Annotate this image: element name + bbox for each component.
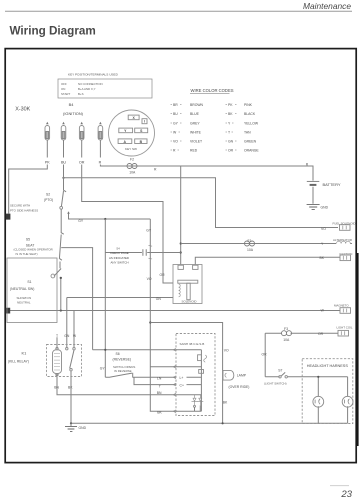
svg-text:BATTERY: BATTERY (323, 182, 341, 187)
label X-30K (15, 106, 30, 112)
svg-text:VO: VO (224, 348, 229, 352)
svg-text:BU: BU (61, 160, 66, 164)
battery (307, 181, 341, 203)
svg-text:VO: VO (147, 277, 152, 281)
wire label BN (row) (157, 391, 162, 395)
svg-text:LIGHT COIL: LIGHT COIL (337, 325, 353, 329)
wire alternator row (181, 243, 336, 245)
wire label BK (ignition) (320, 256, 325, 260)
node VO branch (149, 321, 151, 323)
svg-text:(IGNITION): (IGNITION) (63, 111, 84, 116)
svg-text:BK: BK (68, 386, 73, 390)
svg-text:23: 23 (340, 489, 352, 500)
svg-text:(PTO): (PTO) (44, 198, 53, 202)
svg-text:ANY SWITCH: ANY SWITCH (111, 260, 129, 264)
switch S5 seat (14, 209, 64, 268)
svg-text:T: T (56, 334, 58, 338)
svg-text:BR: BR (173, 103, 178, 107)
svg-text:RED: RED (190, 149, 198, 153)
svg-text:BU: BU (173, 112, 178, 116)
wire label Y (alternator) (321, 242, 324, 246)
wire LN row (133, 376, 176, 378)
svg-text:BN: BN (54, 386, 59, 390)
engine plug ignition (340, 252, 353, 261)
wire GY row (69, 213, 151, 220)
fuse F2 (127, 158, 137, 175)
label B4 (IGNITION) (63, 102, 84, 116)
wire label LN (157, 376, 162, 380)
svg-text:IS IN THE SEAT): IS IN THE SEAT) (16, 252, 38, 256)
svg-text:PK: PK (228, 103, 233, 107)
wire BK kill vertical (70, 371, 72, 423)
svg-text:GND: GND (321, 205, 329, 209)
wire label R (99, 160, 102, 164)
switch S6 reverse (105, 352, 135, 378)
fuse F3 (282, 327, 292, 342)
wire label OR (solenoid feed) (160, 273, 166, 277)
box S1 neutral (7, 258, 57, 323)
connector inline pair (143, 249, 146, 256)
svg-text:KEY POSITION/TERMINALS USED: KEY POSITION/TERMINALS USED (68, 73, 119, 77)
svg-text:BLACK: BLACK (244, 112, 256, 116)
svg-text:LAMP: LAMP (237, 374, 247, 378)
svg-text:TAN: TAN (244, 131, 251, 135)
connector arrow PK at border (6, 214, 11, 220)
svg-text:GY: GY (78, 219, 84, 223)
wire label GY (vertical) (146, 229, 152, 233)
connector J1 (PK bullet) (45, 122, 50, 158)
svg-text:L+: L+ (180, 376, 184, 380)
wire label BU (61, 160, 66, 164)
svg-text:10A: 10A (129, 170, 136, 174)
svg-text:CHECK PAGE: CHECK PAGE (110, 251, 129, 255)
wire GY S6 row (93, 349, 176, 351)
svg-text:OR: OR (228, 149, 234, 153)
svg-text:T: T (228, 131, 230, 135)
engine plug fuel solenoid (333, 222, 356, 231)
wire label OR (79, 160, 85, 164)
wire BN row (57, 374, 176, 395)
svg-text:BK: BK (320, 256, 325, 260)
svg-text:PK: PK (45, 160, 50, 164)
svg-text:SHOWN IN: SHOWN IN (17, 296, 32, 300)
wire label GY (S6) (100, 366, 106, 370)
svg-text:OR: OR (262, 353, 268, 357)
connector J2 (BU bullet) (61, 122, 66, 158)
svg-text:VO: VO (321, 227, 326, 231)
svg-text:Wiring Diagram: Wiring Diagram (10, 24, 96, 37)
switch S1 neutral (10, 269, 62, 311)
svg-text:GN: GN (156, 297, 162, 301)
svg-text:NO CONNECTION: NO CONNECTION (78, 82, 103, 86)
wire S5 aux to GY-S6 row (61, 248, 92, 350)
svg-text:(KILL RELAY): (KILL RELAY) (8, 359, 29, 363)
wire ignition row (195, 257, 340, 264)
svg-text:BN: BN (157, 391, 162, 395)
svg-text:(OVER RIDE): (OVER RIDE) (229, 385, 250, 389)
svg-text:VO: VO (173, 140, 178, 144)
svg-text:GREEN: GREEN (244, 140, 257, 144)
svg-text:OFF: OFF (61, 82, 67, 86)
wire label BK (kill) (68, 386, 73, 390)
svg-text:GND: GND (79, 426, 87, 430)
svg-text:BLUE: BLUE (190, 112, 200, 116)
node GY S6 (104, 349, 106, 351)
wire W magneto row (7, 311, 340, 348)
alternator coil (333, 238, 352, 244)
svg-text:VIOLET: VIOLET (190, 140, 202, 144)
svg-text:PINK: PINK (244, 103, 253, 107)
svg-text:MAGNETO: MAGNETO (334, 304, 349, 308)
svg-text:START: START (61, 92, 70, 96)
lamp right (342, 396, 353, 407)
svg-text:10A: 10A (247, 248, 254, 252)
svg-text:BK: BK (223, 400, 228, 404)
svg-text:OR: OR (79, 160, 85, 164)
svg-text:(CLOSED WHEN OPERATOR: (CLOSED WHEN OPERATOR (14, 248, 53, 252)
lamp left (313, 396, 324, 407)
connector arrow W at border (6, 308, 10, 314)
wire vertical to S6 (104, 219, 106, 377)
wire label R (battery) (306, 162, 309, 166)
wire seat interlock row with connector (105, 252, 180, 254)
svg-text:(REVERSE): (REVERSE) (113, 358, 131, 362)
svg-text:S7: S7 (278, 369, 282, 373)
wire label OR (light switch) (262, 353, 268, 357)
connector J4 (R bullet) (98, 122, 103, 158)
svg-text:BK: BK (228, 112, 233, 116)
svg-text:SANH 38 C.E.S.B: SANH 38 C.E.S.B (180, 342, 205, 346)
wire label VO (override) (224, 348, 229, 352)
svg-text:X-30K: X-30K (15, 106, 30, 112)
node solenoid feed / seat line tap (180, 251, 182, 253)
wire GY/VO vertical long (150, 219, 176, 411)
connector J3 (OR bullet) (79, 122, 84, 158)
svg-text:GN: GN (228, 140, 234, 144)
fuse F1 (245, 239, 255, 252)
wire VO pin stub (150, 366, 176, 368)
node BU junction (62, 177, 64, 179)
wire solenoid feed vertical (180, 166, 182, 265)
svg-text:S6: S6 (116, 352, 120, 356)
svg-text:YELLOW: YELLOW (244, 122, 259, 126)
key position table (58, 73, 152, 98)
svg-text:GY: GY (100, 366, 106, 370)
wire label VO (vertical) (147, 277, 152, 281)
harness headlight (302, 359, 353, 424)
wire VO branch to override (150, 323, 222, 424)
wire label PK (45, 160, 50, 164)
switch S2 PTO (44, 165, 66, 210)
override button (223, 370, 249, 388)
svg-text:AS INDICATED: AS INDICATED (109, 256, 129, 260)
svg-text:IN REVERSE: IN REVERSE (114, 369, 132, 373)
svg-text:SOLENOID: SOLENOID (182, 300, 197, 304)
node solenoid feed / alternator tap (180, 242, 182, 244)
svg-text:KEY SW: KEY SW (125, 147, 137, 151)
svg-text:B+A AND X,Y: B+A AND X,Y (78, 87, 96, 91)
wire label GY (row) (78, 219, 84, 223)
svg-text:NEUTRAL: NEUTRAL (17, 300, 31, 304)
svg-text:ON: ON (61, 87, 65, 91)
svg-text:I: I (144, 120, 145, 124)
wire label R (mid) (154, 168, 157, 172)
crossover ticks (149, 245, 153, 259)
node S1 to W row (60, 309, 62, 311)
wire label BK (module row) (157, 410, 162, 414)
svg-text:OR: OR (160, 273, 166, 277)
svg-text:10A: 10A (283, 338, 290, 342)
svg-text:SECURE WITH: SECURE WITH (10, 203, 30, 207)
svg-text:GY: GY (146, 229, 152, 233)
wire R main to battery (100, 165, 313, 181)
svg-text:(NEUTRAL SW): (NEUTRAL SW) (10, 287, 34, 291)
svg-text:OR: OR (318, 332, 324, 336)
wire GN row (67, 298, 173, 348)
switch S7 light (264, 369, 302, 386)
svg-text:WIRE COLOR CODES: WIRE COLOR CODES (191, 88, 234, 93)
module CESB (173, 334, 215, 416)
wire label GN (row) (156, 297, 162, 301)
connector arrow GY stub (67, 211, 70, 214)
wire light coil row (265, 333, 338, 377)
svg-text:LN: LN (157, 376, 162, 380)
wire label OR (light coil) (318, 332, 324, 336)
svg-text:C+: C+ (180, 383, 184, 387)
svg-text:S1: S1 (27, 280, 31, 284)
svg-text:S2: S2 (46, 193, 50, 197)
svg-text:B4: B4 (69, 102, 75, 107)
svg-text:GN: GN (64, 334, 70, 338)
svg-text:T: T (159, 384, 161, 388)
wire color codes legend (171, 88, 260, 153)
wire label T (159, 384, 161, 388)
svg-text:ORANGE: ORANGE (244, 149, 259, 153)
wire BU down to S2 (63, 165, 65, 191)
solenoid box (173, 265, 202, 304)
wire OR to solenoid box (82, 165, 173, 284)
svg-text:WHITE: WHITE (190, 131, 202, 135)
wire BU row to fuel solenoid feed (64, 178, 339, 228)
note check page (109, 247, 129, 265)
node ground tap (70, 422, 72, 424)
svg-text:R: R (99, 160, 102, 164)
svg-text:PTO SIDE HARNESS: PTO SIDE HARNESS (10, 209, 38, 213)
svg-text:(LIGHT SWITCH): (LIGHT SWITCH) (264, 382, 287, 386)
svg-text:F2: F2 (130, 158, 134, 162)
svg-text:BROWN: BROWN (190, 103, 204, 107)
ground battery (307, 204, 329, 209)
svg-text:S5: S5 (26, 237, 30, 241)
svg-text:B+S: B+S (78, 92, 84, 96)
wire label BK (override) (223, 400, 228, 404)
wire bottom ground bus (71, 422, 348, 424)
svg-text:HEADLIGHT HARNESS: HEADLIGHT HARNESS (307, 364, 349, 368)
svg-text:BK: BK (157, 410, 162, 414)
svg-text:Maintenance: Maintenance (303, 1, 351, 11)
svg-text:K1: K1 (22, 350, 27, 355)
key switch B4 rear view (109, 110, 155, 156)
wire label BN (left) (54, 386, 59, 390)
wire label VO (fuel solenoid) (321, 227, 326, 231)
wire PK run to left border (9, 165, 48, 214)
svg-text:GY: GY (173, 122, 179, 126)
node GY row tap (104, 218, 106, 220)
svg-text:S4: S4 (116, 247, 120, 251)
note secure with (10, 203, 38, 212)
ground kill relay (65, 423, 87, 431)
engine plug light coil (337, 325, 353, 336)
wire label W (magneto) (321, 309, 325, 313)
node override to bus (222, 422, 224, 424)
relay K1 kill (8, 334, 82, 377)
svg-text:GREY: GREY (190, 122, 200, 126)
engine plug magneto (334, 304, 351, 314)
wire T stub (134, 377, 176, 384)
